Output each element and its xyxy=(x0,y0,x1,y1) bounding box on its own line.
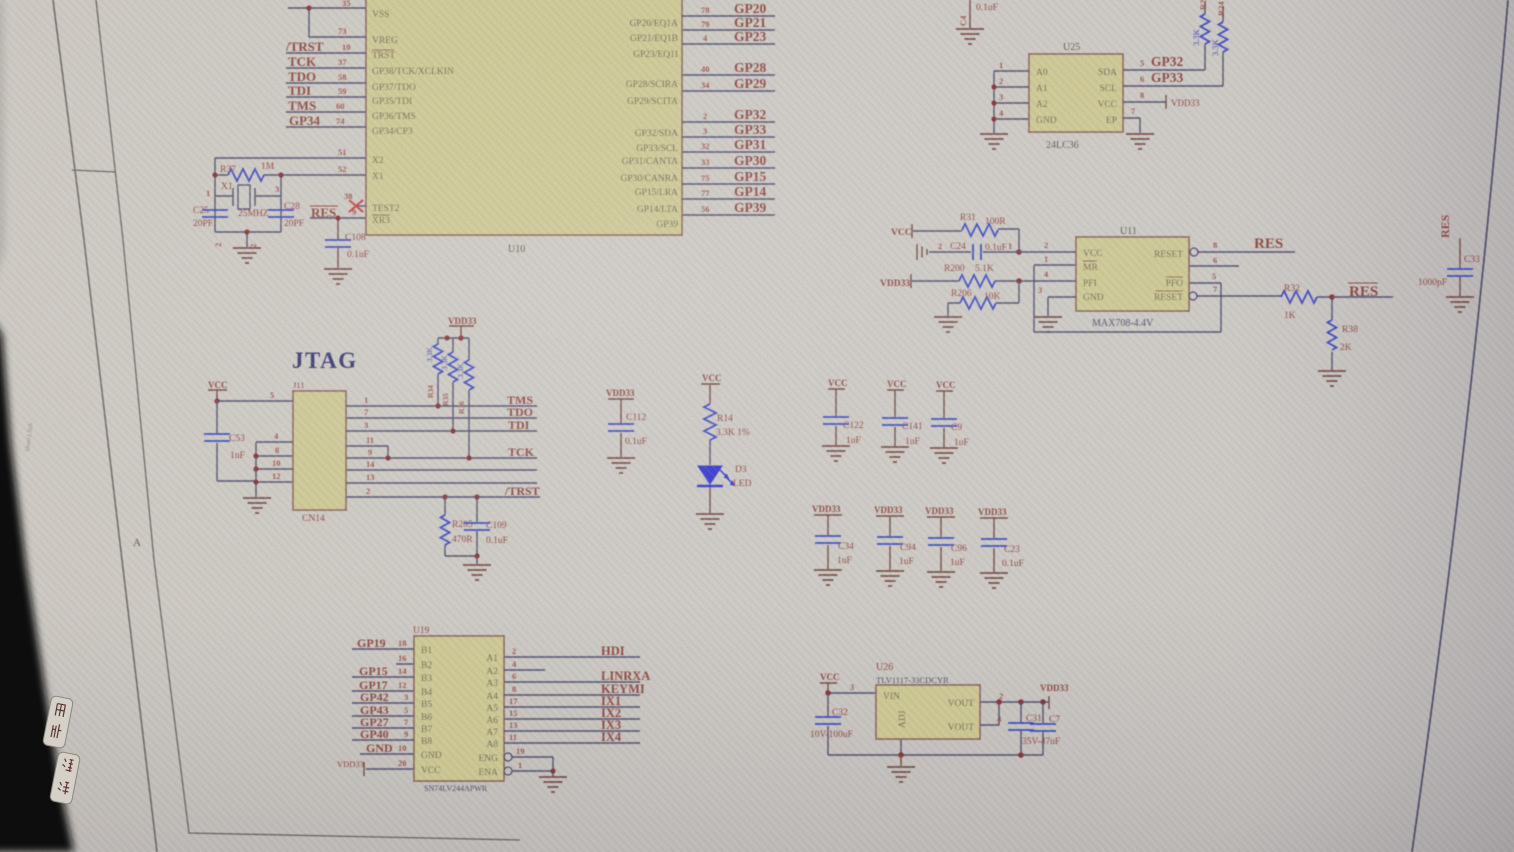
pullup rail xyxy=(438,338,469,360)
resistor R36 xyxy=(465,360,474,390)
wire X1 drop xyxy=(280,175,282,232)
ground xyxy=(1318,371,1346,386)
ground xyxy=(822,446,850,461)
sheet frame inner border line xyxy=(96,0,520,840)
ground xyxy=(539,777,567,792)
ground xyxy=(324,269,352,284)
wire VOUT rail to VDD33 xyxy=(980,702,1049,725)
resistor R38 xyxy=(1331,297,1333,370)
U11 xyxy=(880,213,1480,386)
LED D3 xyxy=(698,466,722,484)
pin numbers U19 left xyxy=(398,638,409,768)
wire X2 drop xyxy=(214,158,216,232)
power port VDD33 xyxy=(1165,95,1167,109)
wire VSS-VREG link xyxy=(288,8,366,37)
capacitor C28 xyxy=(268,210,294,217)
wire pin3 / node TDI xyxy=(346,430,537,432)
ground xyxy=(1034,317,1062,332)
resistor R206 xyxy=(948,281,1019,316)
wire pin1 / node TMS xyxy=(346,405,537,407)
pin names U10 right xyxy=(620,19,678,230)
wire X1 xyxy=(281,174,366,176)
bottom rail and ADJ ground xyxy=(828,739,1043,755)
ground xyxy=(980,573,1008,588)
resistor R31 xyxy=(913,229,1019,252)
ground xyxy=(243,498,271,513)
wire GND pin3 xyxy=(1048,297,1076,316)
wire pin14 xyxy=(346,469,537,471)
pin numbers U10 left xyxy=(336,0,356,217)
capacitor C32 xyxy=(827,693,829,755)
right wires U19 xyxy=(504,657,640,743)
wire MR pin1 xyxy=(1034,265,1076,332)
resistor R24 pullup xyxy=(1219,22,1228,52)
ground xyxy=(876,571,904,586)
wire /TRST xyxy=(286,52,366,54)
wire pin7 / node TDO xyxy=(346,417,537,419)
resistor R37 xyxy=(228,169,264,181)
sheet frame outer border line xyxy=(53,0,157,852)
frame zone divider tick xyxy=(72,170,116,172)
pin names U25 xyxy=(1036,68,1057,126)
pin 8 RESET bubble xyxy=(1190,248,1198,256)
tab zhushi (annotations) xyxy=(49,751,80,804)
U25 xyxy=(956,0,1228,151)
pin names U19 inside xyxy=(421,646,442,776)
decoupling caps xyxy=(606,373,1024,588)
pin 19 ENG bubble and wire xyxy=(504,753,512,761)
IC U26 body TLV1117 xyxy=(876,685,980,739)
side tabs xyxy=(42,695,80,804)
sheet right border wire xyxy=(1412,0,1508,852)
JTAG xyxy=(204,316,540,580)
capacitor C7 xyxy=(1042,702,1044,755)
ground xyxy=(463,565,491,580)
pin numbers U10 right xyxy=(701,5,710,214)
capacitor C24 xyxy=(929,251,1076,253)
ground xyxy=(233,248,261,263)
ground xyxy=(1126,134,1154,149)
ground xyxy=(930,448,958,463)
right net labels U19 xyxy=(601,644,650,744)
wire VIN xyxy=(828,692,876,694)
wire xtal bottom rail xyxy=(215,232,281,247)
chassis port xyxy=(917,244,927,260)
ground xyxy=(607,458,635,473)
left pin bus xyxy=(256,442,293,497)
left wires U19 xyxy=(352,649,414,769)
resistor R34 xyxy=(434,344,443,374)
wire pin9 / node TCK xyxy=(346,457,537,459)
connector CN14 body xyxy=(293,391,346,510)
resistor R23 pullup xyxy=(1201,14,1210,44)
resistor R35 xyxy=(449,352,458,382)
wire PFO pin5 loop to MR xyxy=(1034,283,1221,332)
pin numbers U19 right xyxy=(509,646,525,770)
ground xyxy=(980,134,1008,149)
wire X2 xyxy=(215,157,366,159)
capacitor C25 xyxy=(202,210,228,217)
wire RESET / node RES xyxy=(1198,251,1295,253)
pin 38 stub xyxy=(357,205,366,207)
capacitor C108 xyxy=(337,218,339,268)
left pin bus wires xyxy=(994,71,1029,133)
resistor R205 xyxy=(442,494,447,499)
U26 xyxy=(810,662,1069,782)
wire TMS xyxy=(286,111,366,113)
pin numbers U25 left xyxy=(999,60,1004,118)
wire TCK xyxy=(286,67,366,69)
no-connect X on TEST2 xyxy=(349,200,363,212)
ground xyxy=(887,767,915,782)
crystal circuit xyxy=(193,158,369,284)
ground xyxy=(927,572,955,587)
IC U25 body xyxy=(1029,54,1123,132)
wire GP34 xyxy=(286,126,366,128)
left net labels U19 xyxy=(357,636,393,755)
wire EP to ground xyxy=(1123,118,1140,133)
wire to RES-bar xyxy=(1317,296,1393,298)
wire pin11 jog xyxy=(346,446,388,458)
capacitor 0.1uF top right with ground xyxy=(969,0,971,28)
U19 xyxy=(337,626,650,793)
IC U10 body xyxy=(366,0,682,235)
wire VCC to VDD33 port xyxy=(1123,101,1166,103)
wire SDA / node GP32 xyxy=(1123,69,1205,71)
tab fujian (attachments) xyxy=(42,695,73,748)
wire pin2 / node /TRST xyxy=(346,496,540,498)
wire pin5 xyxy=(217,400,293,402)
pin names U10 left xyxy=(372,10,454,226)
net labels GP20-GP39 xyxy=(734,1,766,215)
IC U19 body xyxy=(414,636,504,781)
U10 right pin wires GP20-GP39 xyxy=(682,16,775,215)
ground xyxy=(881,447,909,462)
resistor R200 xyxy=(912,280,1076,282)
wire SCL / node GP33 xyxy=(1123,85,1223,87)
wire RES to pin 9 xyxy=(310,217,366,219)
pin 6 stub xyxy=(1189,265,1239,267)
pin 7 RESET bubble xyxy=(1189,292,1197,300)
ground xyxy=(696,514,724,529)
capacitor C31 xyxy=(1020,702,1022,755)
wire TDI xyxy=(286,96,366,98)
ground xyxy=(814,570,842,585)
capacitor C53 xyxy=(217,401,256,481)
ground xyxy=(934,317,962,332)
ground xyxy=(1446,297,1474,312)
monitor bezel (bottom-left black wedge) xyxy=(0,0,74,852)
crystal X1 25MHZ xyxy=(238,185,250,209)
resistor R14 xyxy=(704,404,716,440)
pin 1 ENA bubble and wire xyxy=(504,767,512,775)
wire pin7 to R32 xyxy=(1197,295,1281,297)
capacitor C109 xyxy=(474,494,479,499)
resistor R32 xyxy=(1281,291,1317,303)
U10 xyxy=(215,0,775,255)
wire pin13 xyxy=(346,482,537,484)
wire TDO xyxy=(286,82,366,84)
IC U11 body MAX708 xyxy=(1076,237,1189,311)
ground xyxy=(956,29,984,44)
